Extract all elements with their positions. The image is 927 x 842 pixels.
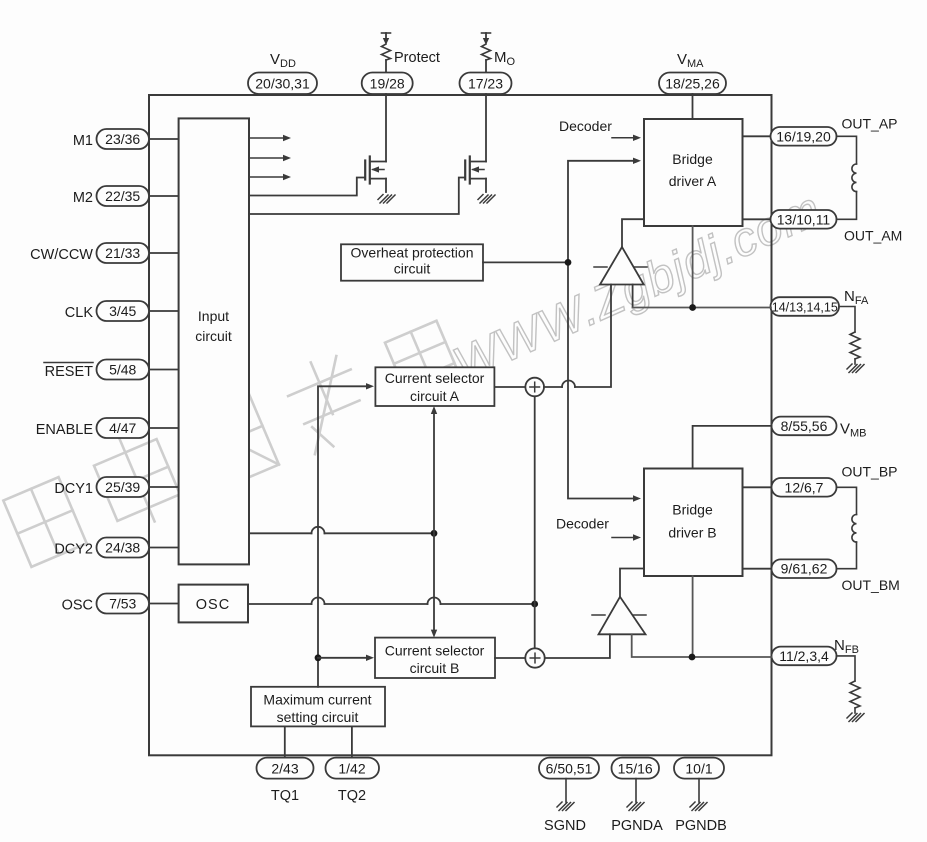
current selector circuit A block [375, 367, 494, 406]
svg-text:OUT_AM: OUT_AM [844, 228, 902, 244]
input circuit output arrow 1 [249, 135, 291, 141]
sense resistor on NFB to ground [837, 656, 865, 722]
svg-text:M2: M2 [73, 190, 93, 206]
watermark latin text WWW.Zgbjdj.com [446, 182, 830, 392]
bridge driver B block [644, 469, 743, 577]
svg-text:16/19,20: 16/19,20 [776, 128, 831, 144]
svg-text:24/38: 24/38 [105, 540, 140, 556]
svg-text:circuit B: circuit B [410, 660, 460, 676]
pin OUT_BM 9/61,62 [743, 559, 900, 593]
svg-text:PGNDB: PGNDB [675, 818, 727, 834]
overheat protection circuit block [341, 244, 483, 280]
svg-text:Input: Input [198, 308, 229, 324]
svg-text:OSC: OSC [196, 597, 230, 613]
decoder label B with arrow into bridge driver B [556, 516, 641, 541]
svg-text:circuit: circuit [394, 261, 431, 277]
wire bridge driver B sense to NFB pin [632, 576, 772, 660]
pin CW/CCW 21/33 [30, 243, 178, 263]
sense resistor on NFA to ground [839, 307, 864, 373]
load inductor B between OUT_BP and OUT_BM [837, 487, 857, 568]
wire overheat protection output [483, 259, 571, 266]
OSC block [179, 585, 248, 623]
svg-text:driver A: driver A [669, 173, 717, 189]
wire input circuit to Q2 gate [249, 178, 465, 215]
svg-text:CW/CCW: CW/CCW [30, 247, 93, 263]
svg-text:VMA: VMA [677, 51, 704, 70]
pin NFA 14/13,14,15 [771, 288, 869, 316]
input circuit output arrow 2 [249, 155, 291, 161]
svg-text:NFB: NFB [834, 637, 859, 656]
svg-text:OSC: OSC [62, 598, 93, 614]
pin DCY2 24/38 [54, 538, 178, 558]
svg-text:Decoder: Decoder [559, 118, 612, 134]
bridge driver A block [644, 119, 743, 226]
wire comparator A output to bridge driver A [622, 219, 644, 247]
wire selector A output to summing A [495, 386, 526, 388]
svg-text:SGND: SGND [544, 818, 586, 834]
svg-text:TQ2: TQ2 [338, 788, 366, 804]
svg-text:MO: MO [494, 49, 516, 68]
summing junction A [525, 378, 544, 397]
svg-text:driver B: driver B [668, 525, 716, 541]
wire comparator A inverting input from NFA line [632, 285, 634, 308]
svg-text:Current selector: Current selector [385, 643, 485, 659]
wire input circuit to Q1 gate [249, 178, 365, 196]
svg-text:14/13,14,15: 14/13,14,15 [772, 301, 838, 315]
svg-text:Overheat protection: Overheat protection [351, 245, 474, 261]
wire overheat/comparator bus into bridge drivers A and B [568, 158, 641, 502]
pin ENABLE 4/47 [36, 418, 179, 438]
svg-text:Bridge: Bridge [672, 502, 713, 518]
svg-text:20/30,31: 20/30,31 [255, 76, 310, 92]
pin CLK 3/45 [65, 301, 179, 321]
svg-text:ENABLE: ENABLE [36, 422, 94, 438]
svg-text:DCY1: DCY1 [54, 481, 93, 497]
summing junction B [525, 648, 544, 667]
svg-text:18/25,26: 18/25,26 [665, 76, 720, 92]
svg-text:19/28: 19/28 [370, 76, 405, 92]
svg-text:PGNDA: PGNDA [611, 818, 663, 834]
svg-text:CLK: CLK [65, 305, 94, 321]
wire OSC output with hops to summing bus [248, 598, 538, 608]
comparator B triangle [592, 597, 646, 635]
svg-text:circuit A: circuit A [410, 388, 460, 404]
svg-text:21/33: 21/33 [105, 245, 140, 261]
svg-text:M1: M1 [73, 133, 93, 149]
svg-text:2/43: 2/43 [271, 761, 298, 777]
svg-text:6/50,51: 6/50,51 [546, 761, 593, 777]
pin MO 17/23 with pull-down resistor arrow [460, 33, 516, 94]
svg-text:Protect: Protect [394, 50, 440, 66]
svg-text:TQ1: TQ1 [271, 788, 299, 804]
wire max current setting feed to selectors (vertical bus) [315, 383, 374, 687]
watermark chinese characters [3, 321, 463, 567]
wire comparator B output to bridge driver B [620, 569, 644, 597]
svg-text:17/23: 17/23 [468, 76, 503, 92]
comparator A triangle [594, 247, 647, 285]
wire summing A output to comparator A input with hop [544, 285, 611, 388]
svg-text:5/48: 5/48 [109, 362, 136, 378]
wire DCY2 row from input circuit with hop [249, 527, 437, 537]
decoder label A with arrow into bridge driver A [559, 118, 641, 141]
pin OUT_BP 12/6,7 [743, 464, 898, 497]
svg-text:13/10,11: 13/10,11 [777, 211, 831, 227]
pin RESET(bar) 5/48 [44, 360, 179, 381]
load inductor A between OUT_AP and OUT_AM [837, 136, 857, 219]
svg-text:25/39: 25/39 [105, 479, 140, 495]
pin TQ1 2/43 [257, 726, 314, 804]
ground at Q2 source [478, 195, 495, 204]
wire selector A / selector B linking bus with arrows [431, 406, 437, 638]
pin DCY1 25/39 [54, 477, 178, 497]
svg-text:7/53: 7/53 [109, 596, 136, 612]
wire selector B output to summing B [495, 657, 525, 659]
current selector circuit B block [375, 638, 495, 678]
pin Protect 19/28 with pull-down resistor arrow [362, 33, 440, 94]
transistor Q1 (protect output MOSFET) [365, 94, 386, 192]
svg-text:Current selector: Current selector [385, 370, 485, 386]
wire VMB pin to bridge driver B top [693, 426, 772, 469]
svg-text:10/1: 10/1 [685, 761, 712, 777]
svg-text:DCY2: DCY2 [54, 542, 93, 558]
svg-text:1/42: 1/42 [338, 761, 365, 777]
svg-text:Decoder: Decoder [556, 516, 609, 532]
svg-text:NFA: NFA [844, 288, 869, 307]
pin VMA 18/25,26 [659, 51, 726, 94]
input circuit output arrow 3 [249, 174, 291, 180]
pin PGNDB 10/1 with ground [674, 758, 727, 834]
svg-text:VMB: VMB [840, 421, 867, 440]
pin OUT_AM 13/10,11 [743, 210, 903, 244]
wire bridge driver A sense to NFA pin [633, 226, 771, 311]
svg-text:23/36: 23/36 [105, 131, 140, 147]
svg-text:3/45: 3/45 [109, 303, 136, 319]
pin TQ2 1/42 [326, 726, 380, 804]
pin VDD 20/30,31 [248, 51, 317, 94]
wire summing A to summing B vertical [534, 396, 536, 648]
wire summing B to comparator B input [545, 634, 610, 658]
svg-text:9/61,62: 9/61,62 [781, 561, 828, 577]
svg-text:VDD: VDD [270, 51, 296, 70]
pin OUT_AP 16/19,20 [743, 116, 898, 146]
svg-text:OUT_BM: OUT_BM [842, 577, 900, 593]
svg-text:OUT_AP: OUT_AP [842, 116, 898, 132]
svg-text:11/2,3,4: 11/2,3,4 [779, 648, 829, 664]
IC boundary box [149, 95, 772, 755]
pin PGNDA 15/16 with ground [611, 758, 663, 834]
pin NFB 11/2,3,4 [772, 637, 859, 665]
svg-text:setting circuit: setting circuit [277, 709, 359, 725]
svg-text:22/35: 22/35 [105, 188, 140, 204]
maximum current setting circuit block [251, 687, 385, 727]
pin OSC 7/53 [62, 594, 179, 614]
input circuit block [179, 118, 249, 564]
wire VMA pin to bridge driver A top [692, 94, 694, 119]
svg-text:RESET: RESET [45, 364, 93, 380]
pin SGND 6/50,51 with ground [539, 758, 599, 834]
transistor Q2 (MO output MOSFET) [465, 94, 486, 192]
svg-text:12/6,7: 12/6,7 [785, 479, 824, 495]
svg-text:4/47: 4/47 [109, 420, 136, 436]
pin M1 23/36 [73, 129, 179, 149]
pin VMB 8/55,56 [772, 417, 867, 440]
svg-text:circuit: circuit [195, 328, 232, 344]
ground at Q1 source [378, 195, 395, 204]
svg-text:Bridge: Bridge [672, 151, 713, 167]
svg-text:OUT_BP: OUT_BP [842, 464, 898, 480]
pin M2 22/35 [73, 186, 179, 206]
svg-text:15/16: 15/16 [618, 761, 653, 777]
svg-text:8/55,56: 8/55,56 [781, 418, 828, 434]
svg-text:Maximum current: Maximum current [263, 692, 371, 708]
